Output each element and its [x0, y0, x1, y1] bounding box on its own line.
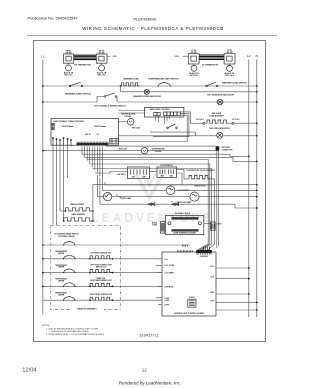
junction convection-N: [256, 184, 258, 186]
junction blower-N: [256, 189, 258, 191]
svg-text:ZONE ELEMENT: ZONE ELEMENT: [209, 115, 225, 117]
wire EOC pin drop 1: [52, 147, 54, 226]
oven relay board U2: [144, 107, 184, 117]
infinite switch SW2: [96, 54, 107, 63]
maintop assembly dashed box: [51, 226, 121, 310]
svg-text:N: N: [256, 54, 258, 58]
wire relay loopback inner: [180, 112, 192, 123]
junction sucb L2c: [248, 293, 250, 295]
wire WM element right: [234, 122, 257, 124]
junction sucb L2b: [248, 278, 250, 280]
A-bus connector left: [160, 222, 164, 233]
title rule: [27, 35, 277, 37]
switch surface sense 1: [64, 241, 76, 245]
wire fan to N: [85, 157, 257, 161]
wire stub SW2 right: [107, 55, 111, 57]
aux switch box: [128, 167, 150, 179]
infinite switch SW1: [64, 54, 74, 63]
UIB top comb: [172, 217, 199, 219]
resistor surface element E4: [90, 297, 112, 300]
wire warmer rail: [43, 85, 257, 87]
wire lock aux: [150, 131, 196, 133]
svg-text:L2 RF: L2 RF: [210, 300, 214, 302]
lamp WM oven indicator: [217, 132, 223, 138]
resistor bake element: [64, 218, 93, 221]
surface unit control board U4: [162, 252, 216, 316]
svg-text:RKT: RKT: [132, 176, 135, 178]
svg-text:REL K1: REL K1: [85, 134, 91, 136]
resistor broil element: [65, 208, 93, 211]
svg-text:Publication No: 5995423547: Publication No: 5995423547: [28, 16, 79, 21]
wire blower left: [106, 189, 166, 191]
svg-text:WARMER ZONE SWITCH: WARMER ZONE SWITCH: [222, 82, 247, 85]
svg-text:NOTES:: NOTES:: [42, 325, 51, 327]
switch temperature limit: [158, 83, 170, 87]
svg-text:WIRING SCHEMATIC - PLEFM399DCA: WIRING SCHEMATIC - PLEFM399DCA & PLEFM39…: [82, 26, 224, 31]
svg-text:HOT SURFACE SENSE SWITCH: HOT SURFACE SENSE SWITCH: [94, 105, 126, 108]
svg-text:316417711: 316417711: [139, 332, 160, 337]
connector SUCB main: [196, 250, 212, 253]
wire convection right to N: [211, 179, 257, 185]
svg-text:LIMITER: LIMITER: [58, 281, 65, 283]
svg-text:FAN MOTOR: FAN MOTOR: [195, 184, 206, 187]
junction fanL2: [248, 155, 250, 157]
wire blower right to N: [175, 189, 257, 191]
wire fan drop lamp1: [96, 175, 98, 197]
svg-text:PIB COM: PIB COM: [132, 127, 140, 129]
UIB bottom comb: [172, 229, 199, 231]
resistor warmer zone element: [122, 83, 140, 86]
svg-text:L1 RF2: L1 RF2: [164, 300, 169, 302]
relay contact RY1: [154, 112, 157, 115]
junction fanN: [256, 160, 258, 162]
wire fan to UIB 3: [92, 169, 211, 251]
receptacle plug P4: [227, 65, 233, 71]
user interface board U3: [165, 215, 203, 234]
switch hot surface sense: [97, 97, 104, 103]
svg-text:CONVECTION COOK ELEMENT: CONVECTION COOK ELEMENT: [186, 170, 215, 172]
wire EOC to WM connector upper: [106, 145, 216, 147]
svg-text:CM/DM RKT: CM/DM RKT: [200, 256, 209, 258]
svg-text:LF THERMISTOR: LF THERMISTOR: [202, 65, 219, 67]
switch temperature limiter TL4: [64, 297, 76, 301]
svg-text:WARMER ZONE INDICATOR: WARMER ZONE INDICATOR: [133, 95, 161, 98]
wire right front unit row: [43, 299, 162, 301]
motor fan M2: [190, 192, 199, 201]
junction railA-N: [256, 85, 258, 87]
resistor surface element E3: [90, 283, 112, 286]
wire N vertical: [256, 60, 258, 318]
wire left rear unit row: [43, 258, 162, 260]
thermistor bus LF: [199, 54, 224, 56]
switch door lock: [167, 127, 169, 129]
door switch contacts: [159, 170, 161, 175]
door switch assembly box: [157, 167, 177, 178]
svg-text:L1 RF1: L1 RF1: [164, 298, 169, 300]
EOC left edge connector: [52, 123, 54, 130]
svg-text:2. COMPONENTS WITH '#' DO: 2. COMPONENTS WITH '#' DO NOT APPEAR ON …: [46, 333, 105, 336]
wire element return vertical: [92, 185, 94, 221]
svg-text:PLEFM399D: PLEFM399D: [134, 17, 157, 22]
wire EOC pin drop 4: [63, 147, 65, 221]
svg-text:L1 RR BUSS: L1 RR BUSS: [164, 286, 173, 288]
resistor surface element E1: [90, 256, 112, 259]
svg-text:L1 RF3: L1 RF3: [164, 305, 169, 307]
wire convection left: [177, 169, 185, 171]
svg-text:L1 LF OUTER: L1 LF OUTER: [164, 265, 175, 267]
wire probe lower run: [119, 150, 142, 152]
junction element tap: [120, 85, 122, 87]
svg-text:ELECTRONIC OVEN CONTROL: ELECTRONIC OVEN CONTROL: [54, 121, 86, 123]
svg-text:L2 LF: L2 LF: [210, 266, 214, 268]
connector W CON 2: [232, 122, 234, 124]
wire WM element left: [192, 122, 203, 124]
svg-text:L1 LF INNER: L1 LF INNER: [164, 272, 175, 274]
svg-text:DOOR SWITCH: DOOR SWITCH: [160, 165, 173, 167]
switch warmer zone left: [69, 85, 71, 87]
UIB mount hole left: [168, 222, 171, 225]
svg-text:RKT-1 B+: RKT-1 B+: [190, 75, 198, 77]
fuse door lamp switch 1: [148, 203, 155, 206]
svg-text:RKT-1 B+: RKT-1 B+: [64, 75, 72, 77]
wire relay loopback mid: [119, 115, 188, 141]
SUCB top connector pins: [203, 247, 205, 251]
junction lamp-N: [256, 196, 258, 198]
EOC left pins: [52, 139, 54, 147]
svg-text:BAKE ELEMENT: BAKE ELEMENT: [72, 213, 86, 216]
svg-text:WM OVEN INDICATOR: WM OVEN INDICATOR: [209, 127, 230, 130]
resistor surface element E2: [90, 270, 112, 273]
junction railC-N: [256, 101, 258, 103]
wire L1 vertical: [42, 60, 44, 315]
wire EOC to relay box 1: [119, 110, 146, 112]
lamp hot surface indicator: [217, 99, 223, 105]
relay board pin drops: [155, 116, 157, 121]
wire L1 to EOC: [43, 150, 119, 152]
motor blower M1: [166, 186, 175, 195]
svg-text:SHUNT: SHUNT: [189, 297, 195, 299]
svg-text:INNER COIL: INNER COIL: [97, 278, 106, 280]
wire EOC to probe: [119, 121, 128, 123]
junction L1 row2: [42, 258, 44, 260]
wire EOC pin drop 3: [60, 147, 65, 211]
svg-text:WM DOOR LAMP: WM DOOR LAMP: [177, 201, 192, 204]
thermistor bus RF: [74, 54, 97, 56]
svg-text:BROIL ELEMENT: BROIL ELEMENT: [71, 204, 86, 206]
wire SUCB out Nb: [216, 309, 257, 311]
wire fan to UIB 4: [95, 172, 128, 174]
wire WM indicator: [119, 135, 217, 137]
svg-text:K8005678: K8005678: [94, 126, 103, 128]
svg-text:CONNECTOR: CONNECTOR: [222, 149, 234, 151]
EOC bottom connector comb: [77, 143, 109, 146]
lamp warmer zone indicator: [144, 89, 149, 94]
svg-text:OVEN LAMP: OVEN LAMP: [121, 197, 132, 200]
svg-text:Rendered by LeadVenture, Inc.: Rendered by LeadVenture, Inc.: [119, 381, 181, 386]
svg-text:K2: K2: [97, 134, 99, 136]
wire door lamp run: [104, 203, 235, 205]
junction sucb Nb: [256, 309, 258, 311]
electronic oven control U1: [51, 119, 119, 146]
svg-text:12/04: 12/04: [22, 367, 36, 373]
svg-text:LIMITER: LIMITER: [58, 267, 65, 269]
maintop label: [70, 305, 104, 310]
wire element return to N: [93, 184, 215, 186]
wire right rear unit row: [43, 285, 162, 287]
receptacle plug P3: [191, 65, 197, 71]
A-bus right connector: [211, 222, 216, 230]
svg-text:BAK OVEN CONTROL: BAK OVEN CONTROL: [150, 108, 171, 111]
svg-text:PIB CON: PIB CON: [119, 149, 127, 151]
svg-text:L1: L1: [41, 55, 45, 59]
drawing border frame: [34, 41, 266, 342]
junction L1 row1: [42, 244, 44, 246]
svg-text:LOW SWTH: LOW SWTH: [117, 174, 127, 176]
svg-text:LIMITER: LIMITER: [58, 294, 65, 296]
junction L1 feed: [42, 150, 44, 152]
junction doorlamp-N: [256, 207, 258, 209]
junction WM indicator-N: [256, 135, 258, 137]
svg-text:LIMITER: LIMITER: [58, 253, 65, 255]
junction railB-N: [256, 91, 258, 93]
svg-text:HOT SURFACE INDICATOR: HOT SURFACE INDICATOR: [207, 93, 234, 96]
EOC harness verticals: [81, 146, 83, 154]
svg-text:WARMER ZONE: WARMER ZONE: [123, 77, 139, 80]
connector W CON 1: [203, 122, 205, 124]
switch temperature limiter TL2: [64, 269, 76, 273]
junction L1-railC: [42, 101, 44, 103]
SUCB top-left pins: [181, 245, 183, 247]
relay contact RY2 bank: [164, 112, 167, 115]
watermark V logo: [136, 174, 163, 198]
svg-text:TEMPERATURE LIMIT SWITCH: TEMPERATURE LIMIT SWITCH: [148, 78, 179, 81]
junction WM element-N: [256, 122, 258, 124]
infinite switch SW4: [224, 54, 235, 64]
wire hot surface rail: [43, 101, 97, 103]
wire fan drop motor: [103, 180, 107, 190]
wire left front unit row: [43, 272, 162, 274]
switch warmer zone right: [206, 85, 208, 87]
wire warmer indicator branch: [120, 86, 122, 92]
svg-text:SURFACE UNIT CONTROL BOARD: SURFACE UNIT CONTROL BOARD: [174, 312, 204, 315]
svg-text:1. CIRCUIT SHOWN WITH ALL CO: 1. CIRCUIT SHOWN WITH ALL CONTROLS SET T…: [46, 327, 99, 330]
svg-text:WARMER ZONE SWITCH: WARMER ZONE SWITCH: [65, 92, 91, 95]
wire fan to UIB 5: [84, 156, 86, 158]
wire fan drop lamp2: [100, 178, 104, 204]
wire relay loopback outer: [153, 114, 189, 137]
fuse door lamp switch 2: [172, 203, 179, 206]
EOC corner relay: [110, 138, 119, 143]
infinite switch SW3: [188, 54, 199, 64]
svg-text:RKT-1 B+: RKT-1 B+: [98, 75, 106, 77]
connector WM oven: [216, 146, 220, 150]
switch temperature limiter TL1: [64, 255, 76, 259]
wire EOC to relay box 2: [119, 112, 146, 114]
resistor convection element: [189, 176, 211, 179]
svg-text:PROBE: PROBE: [155, 151, 162, 153]
wire fan to UIB 2: [90, 164, 210, 250]
wire fan right L2: [82, 154, 249, 156]
svg-text:RKT-1 B+: RKT-1 B+: [225, 75, 233, 77]
svg-text:L1 LF: L1 LF: [164, 259, 168, 261]
junction sucb Na: [256, 302, 258, 304]
svg-text:P4 SMALL BUSS: P4 SMALL BUSS: [175, 212, 191, 215]
switch temperature limiter TL3: [64, 283, 76, 287]
junction L1-railA: [42, 85, 44, 87]
junction L1 row3: [42, 272, 44, 274]
svg-text:12: 12: [142, 367, 148, 372]
lamp oven: [103, 192, 111, 200]
receptacle plug P1: [66, 65, 72, 71]
svg-text:MAINTOP ASSEMBLY: MAINTOP ASSEMBLY: [77, 307, 97, 310]
wire led-door link: [150, 171, 158, 173]
svg-text:PROBE: PROBE: [125, 116, 132, 118]
wire L2 vertical: [248, 60, 250, 318]
connector temperature probe lower: [141, 148, 147, 154]
svg-text:RF THERMISTOR: RF THERMISTOR: [74, 64, 91, 66]
UIB mount hole right: [198, 222, 201, 225]
svg-text:L2: L2: [247, 54, 251, 58]
wire sense switch row: [43, 244, 190, 246]
svg-text:W CON 2: W CON 2: [232, 119, 239, 121]
svg-text:(2 SHOWN, 4 REQD): (2 SHOWN, 4 REQD): [58, 235, 75, 238]
wire oven lamp run: [97, 196, 103, 198]
junction L1 row4: [42, 286, 44, 288]
wire EOC pin drop 5: [67, 147, 69, 178]
junction sucb L2a: [248, 267, 250, 269]
connector temperature probe: [127, 119, 134, 126]
svg-text:OVEN DOOR CLOSED AND UNLOCKED.: OVEN DOOR CLOSED AND UNLOCKED.: [51, 330, 89, 333]
receptacle plug P2: [99, 65, 105, 71]
wire WM connector drop: [216, 146, 218, 248]
wire fan to UIB 1: [87, 160, 208, 251]
svg-text:USER INTERFACE BOARD: USER INTERFACE BOARD: [173, 232, 196, 235]
shunt block: [188, 299, 196, 307]
svg-text:BRIDGE COIL: BRIDGE COIL: [96, 266, 106, 268]
svg-text:RKT: RKT: [161, 176, 164, 178]
svg-text:CONN: CONN: [152, 225, 158, 227]
resistor WM oven zone element: [207, 120, 229, 123]
svg-text:W CON 1: W CON 1: [196, 119, 203, 121]
wire EOC pin drop 2: [56, 147, 58, 226]
